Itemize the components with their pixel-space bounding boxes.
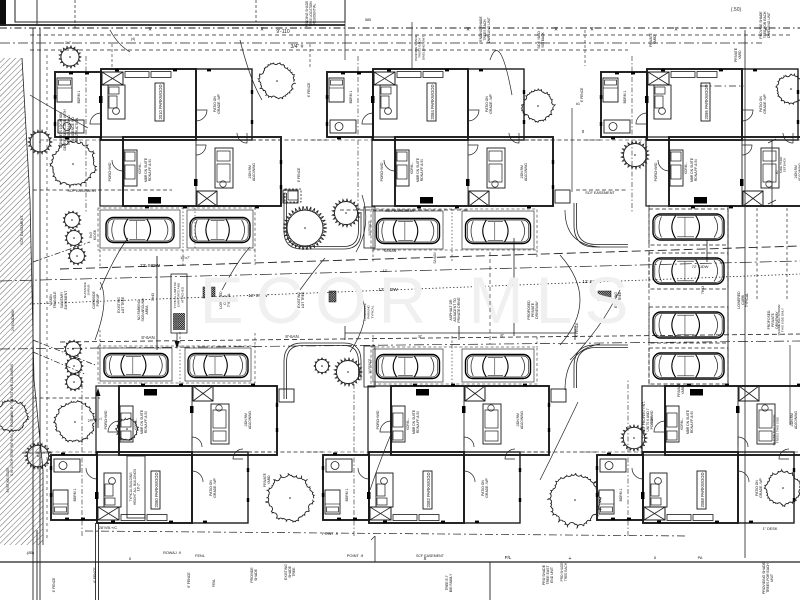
svg-text:EASEMENT: EASEMENT <box>64 291 68 310</box>
road leader 3 <box>300 258 325 290</box>
porch strip U6 <box>642 386 665 455</box>
door arc patio2 U6 <box>779 449 789 459</box>
kdrm text U5 <box>406 418 410 430</box>
svg-text:3/4" #: 3/4" # <box>291 44 304 50</box>
top dashed vline 112 <box>111 44 113 70</box>
parking stall D2 <box>185 348 251 381</box>
s-curve leader B1 <box>356 195 366 252</box>
east stall outline 2 <box>649 253 728 289</box>
svg-text:LOT TREE: LOT TREE <box>121 296 125 313</box>
car D1 <box>104 354 168 378</box>
top fuzz 412 <box>414 35 425 61</box>
east road line <box>744 30 746 558</box>
bed symbol U3 <box>603 78 618 102</box>
crosshatch blob mid <box>329 291 336 302</box>
mid text fence5 <box>52 577 56 592</box>
suite text U4 <box>140 409 148 434</box>
porch strip U5 <box>368 386 391 455</box>
vision diag 1 <box>33 340 95 365</box>
bdrm text U3 <box>623 90 627 103</box>
east column divider <box>649 205 728 385</box>
kitchen fixtures U6 <box>666 404 775 444</box>
svg-text:W FENCE: W FENCE <box>368 221 372 236</box>
closet shelf U5 <box>393 515 439 521</box>
west text 24rd <box>11 308 15 331</box>
south vline x37 <box>36 530 38 600</box>
fence dash C corner <box>700 85 744 87</box>
dim vline x514 <box>513 238 515 336</box>
vision triangle text <box>49 291 68 310</box>
closet shelf U1 <box>125 72 171 78</box>
closet shelf U3 <box>671 72 717 78</box>
s-curve leader B2 <box>350 300 365 352</box>
road text proposed driveway <box>527 300 539 320</box>
lower room text U6 <box>790 411 798 429</box>
svg-text:KDRM...: KDRM... <box>680 418 684 430</box>
svg-text:BDRM 1: BDRM 1 <box>73 488 77 501</box>
easement dash D2 <box>22 452 52 454</box>
tree spiky 1 <box>59 46 81 68</box>
door arc lower2 U6 <box>738 437 748 447</box>
car B2 <box>466 219 531 244</box>
svg-text:SCF EASEMENT: SCF EASEMENT <box>20 215 24 245</box>
wc fixtures U1 <box>58 120 84 133</box>
bdrm text U1 <box>77 90 81 103</box>
svg-text:DWELLING UNIT: DWELLING UNIT <box>421 36 425 60</box>
closet shelf U6 <box>667 515 713 521</box>
scf easement text west <box>10 215 24 477</box>
south text col5 <box>762 561 774 593</box>
svg-text:AREA: AREA <box>145 305 149 315</box>
guide dashed v U5 <box>353 380 355 536</box>
dim 16x7 <box>180 256 190 260</box>
setback dashed line A <box>30 34 792 36</box>
svg-text:ROWAJ .9: ROWAJ .9 <box>163 551 181 555</box>
road centerline <box>0 261 800 281</box>
stall stub D <box>100 330 255 346</box>
svg-text:YARD: YARD <box>681 385 685 395</box>
sidw label 72 <box>140 263 161 269</box>
curb C entry <box>574 203 628 247</box>
guide dashed h U6 <box>582 451 643 453</box>
svg-text:SCF EASEMENT: SCF EASEMENT <box>585 191 615 195</box>
patio room U4 <box>192 452 248 523</box>
wall ticks U4 <box>95 406 194 499</box>
top dashed vline <box>74 0 76 28</box>
east car 2 <box>653 258 724 284</box>
wall ticks U3 <box>645 96 744 186</box>
svg-text:THIS SIDE ONLY: THIS SIDE ONLY <box>781 308 785 332</box>
fence note box B <box>364 207 375 248</box>
svg-text:BDRM 1: BDRM 1 <box>349 90 353 103</box>
fence line SW corner <box>96 523 99 600</box>
tree spiky 2 <box>621 141 649 169</box>
svg-text:OBSTRUCTION: OBSTRUCTION <box>75 117 79 142</box>
lower room text U2 <box>520 163 528 181</box>
door arc patio2 U1 <box>237 133 247 143</box>
svg-text:PICKUP: PICKUP <box>96 293 100 306</box>
bath block U4 <box>104 473 121 507</box>
lower main U3 <box>669 137 800 206</box>
bottom fuzz 700 <box>698 556 703 560</box>
guide dashed h U4 <box>36 451 97 453</box>
door arc patio U3 <box>742 110 753 121</box>
wc fixtures U2 <box>330 120 356 133</box>
kdrm text U2 <box>410 162 414 174</box>
guide dashed v U6 <box>627 380 629 536</box>
window ticks U6 <box>596 384 800 523</box>
east car 3 <box>653 312 724 338</box>
car B1 <box>377 219 440 244</box>
lower room text U4 <box>244 411 252 429</box>
wall ticks U1 <box>99 96 198 186</box>
svg-text:EXISTING EDGE: EXISTING EDGE <box>6 468 10 493</box>
svg-text:+: + <box>569 556 572 562</box>
door arc lower2 U1 <box>196 145 206 155</box>
patio text U4 <box>209 478 217 498</box>
unit label box U6 <box>697 471 706 509</box>
door arc patio2 U5 <box>505 449 515 459</box>
east stall outline 3 <box>649 307 728 343</box>
patio room U5 <box>464 452 520 523</box>
equip box U1 <box>283 190 298 203</box>
bdrm text U6 <box>619 488 623 501</box>
bath block U1 <box>108 85 125 119</box>
carport limit note box <box>171 274 187 349</box>
svg-text:FENL: FENL <box>195 554 205 558</box>
svg-text:BDRM 1: BDRM 1 <box>77 90 81 103</box>
titlebox text right <box>305 1 317 28</box>
east vline 790 <box>789 345 791 425</box>
carport group outline B <box>371 209 537 250</box>
wc fixtures U3 <box>604 120 630 133</box>
black header U3 <box>694 197 707 204</box>
svg-text:SETBACK: SETBACK <box>783 157 787 172</box>
svg-text:P/L: P/L <box>505 555 512 560</box>
cluster link dash top2 <box>525 139 601 141</box>
lower xbox U6 <box>739 386 759 401</box>
patio text U1 <box>213 94 221 114</box>
tree leafy 5 <box>54 400 97 442</box>
bdrm text U5 <box>345 488 349 501</box>
main block U6 <box>643 452 738 523</box>
bath block U5 <box>376 473 393 507</box>
lower divider U1 <box>195 137 197 206</box>
car E2 <box>466 355 531 379</box>
door arc main U2 <box>362 113 373 124</box>
svg-text:RDNA FF-8.50: RDNA FF-8.50 <box>420 159 424 181</box>
yard dim line BC <box>572 102 585 192</box>
wall ticks U2 <box>371 96 470 186</box>
wc fixtures U5 <box>326 459 352 472</box>
leader top left <box>110 30 130 52</box>
svg-text:9'-110: 9'-110 <box>276 29 290 35</box>
bedroom wing U3 <box>601 72 647 137</box>
left arrow north <box>95 282 104 340</box>
svg-text:RDNA FF-8.50: RDNA FF-8.50 <box>694 159 698 181</box>
svg-text:7H63: 7H63 <box>701 286 705 295</box>
mid text fence4 <box>575 322 579 337</box>
porch strip U4 <box>96 386 119 455</box>
east note 3145 <box>642 401 654 438</box>
svg-text:28'/VB.+/C: 28'/VB.+/C <box>99 526 117 530</box>
window ticks U5 <box>322 384 550 523</box>
svg-text:6' FENCE: 6' FENCE <box>580 87 584 102</box>
door arc main U6 <box>632 468 643 479</box>
guide dashed h U1 <box>40 139 101 141</box>
easement dash D <box>33 397 100 399</box>
dim line mid <box>345 326 575 340</box>
guide dashed v U2 <box>357 56 359 212</box>
svg-text:6' FENCE: 6' FENCE <box>575 322 579 337</box>
mid fuzz 435 <box>384 249 437 264</box>
svg-text:POINT .9: POINT .9 <box>347 553 364 558</box>
svg-text:GRADE .WP: GRADE .WP <box>213 478 217 498</box>
svg-text:x: x <box>675 27 678 33</box>
unit divider dashed U1 <box>101 139 252 141</box>
porch strip U2 <box>372 137 395 206</box>
door arc main U4 <box>86 468 97 479</box>
door arc lower2 U4 <box>192 437 202 447</box>
car E1 <box>377 355 440 379</box>
stall stub B1 <box>373 250 537 262</box>
carport group outline E <box>371 347 537 384</box>
svg-text:ADJOINING: ADJOINING <box>248 411 252 429</box>
svg-text:GRADE .WP: GRADE .WP <box>759 478 763 498</box>
fence double line west <box>33 28 40 600</box>
svg-text:SHADE: SHADE <box>254 568 258 580</box>
svg-text:GRADE .WP: GRADE .WP <box>485 478 489 498</box>
wc fixtures U4 <box>54 459 80 472</box>
dim label 8-6an2 <box>285 334 298 339</box>
svg-text:YARD: YARD <box>653 35 657 45</box>
svg-text:GRADE .WP: GRADE .WP <box>217 94 221 114</box>
suite text U6 <box>686 409 694 434</box>
black header U1 <box>148 197 161 204</box>
lower main U5 <box>391 386 549 455</box>
tree leafy 4 <box>50 140 97 187</box>
svg-text:2010 PARKWOOD: 2010 PARKWOOD <box>158 84 163 119</box>
suite text U2 <box>416 157 424 182</box>
top leader 1 <box>490 51 512 95</box>
svg-text:24' ROADWAY: 24' ROADWAY <box>11 308 15 331</box>
dim vline x157 <box>151 256 157 350</box>
door arc lower U6 <box>654 421 665 432</box>
main block U3 <box>647 69 742 140</box>
parking stall E1 <box>373 349 443 382</box>
svg-text:TREES THIS SIDE: TREES THIS SIDE <box>776 417 780 443</box>
hatched verge strip <box>0 58 43 545</box>
scf easement label A <box>67 189 97 193</box>
south text col2 <box>284 564 296 580</box>
east stall dashed v2 <box>786 208 788 300</box>
tree spiky 14 <box>314 358 330 374</box>
svg-text:x: x <box>149 27 152 33</box>
tree spiky 5 <box>63 211 81 229</box>
top fuzz 130 <box>65 37 135 45</box>
west small text block <box>59 109 79 151</box>
guide dashed h2 U6 <box>794 451 800 453</box>
tree spiky 4 <box>283 206 327 250</box>
south text 6fence <box>93 567 191 588</box>
east text 1 <box>779 156 787 173</box>
setback dashed line C <box>30 49 628 51</box>
svg-text:KDRM...: KDRM... <box>410 162 414 174</box>
fence note box E <box>364 346 375 387</box>
closet xbox U5 <box>370 507 391 520</box>
parking stall D1 <box>100 348 172 381</box>
svg-text:SHRUB: SHRUB <box>87 285 91 296</box>
equip box U5 <box>551 389 566 402</box>
closet xbox U1 <box>102 72 123 85</box>
lower xbox U4 <box>193 386 213 401</box>
north property line <box>0 27 800 33</box>
border tick top-left <box>0 0 6 26</box>
dim label 3/4 <box>291 44 304 50</box>
tree spiky 11 <box>65 357 83 375</box>
south text col1 <box>250 567 258 583</box>
svg-text:BIG FAMILY: BIG FAMILY <box>449 573 453 592</box>
bedroom wing U4 <box>51 455 97 520</box>
svg-text:6' FENCE: 6' FENCE <box>187 572 191 588</box>
svg-text:2088 PARKWOOD: 2088 PARKWOOD <box>700 472 705 507</box>
scf easement label D <box>416 554 445 558</box>
mid text fence3 <box>297 167 301 182</box>
car A1 <box>106 218 174 243</box>
east note mid <box>767 310 779 329</box>
svg-text:2084 PARKWOOD: 2084 PARKWOOD <box>430 84 435 119</box>
kitchen fixtures U3 <box>670 148 779 188</box>
patio text U6 <box>755 478 763 498</box>
carport group outline A <box>98 208 255 250</box>
west dashed utility line <box>46 55 48 540</box>
parking stall A2 <box>187 210 253 248</box>
dim text 24vb <box>87 417 102 423</box>
tree spiky 12 <box>65 373 83 391</box>
equip box U2 <box>555 190 570 203</box>
lower room text U3 <box>794 163 800 181</box>
svg-text:GRADE .WP: GRADE .WP <box>489 94 493 114</box>
svg-text:ADJOINING: ADJOINING <box>524 163 528 181</box>
bottom fuzz 215 <box>212 579 216 588</box>
rowaj label <box>163 551 181 555</box>
road text asphalt <box>449 297 461 323</box>
bath block U6 <box>650 473 667 507</box>
guide dashed h2 U1 <box>252 139 285 141</box>
equip box U4 <box>279 389 294 402</box>
svg-text:DWELLING UNIT: DWELLING UNIT <box>767 12 771 38</box>
tree spiky 15 <box>621 425 647 451</box>
unit divider dashed U3 <box>647 139 798 141</box>
vision diag 3 <box>33 242 90 262</box>
road text east1 <box>614 291 622 308</box>
door arc lower U2 <box>384 160 395 171</box>
svg-text:x: x <box>591 27 594 33</box>
black header U4 <box>144 389 157 396</box>
main block U2 <box>373 69 468 140</box>
no parking text <box>137 298 149 322</box>
svg-text:SGF EASEMENT: SGF EASEMENT <box>385 209 415 213</box>
door arc main U1 <box>90 113 101 124</box>
west text low <box>6 468 10 493</box>
svg-text:UNIT: UNIT <box>770 574 774 582</box>
south line ticks <box>129 555 657 561</box>
kdrm text U6 <box>680 418 684 430</box>
road leader 4 <box>560 255 580 345</box>
east label 72sidw <box>692 264 709 269</box>
bedroom wing U1 <box>55 72 101 137</box>
closet xbox U6 <box>644 507 665 520</box>
svg-text:2086 PARKWOOD: 2086 PARKWOOD <box>704 84 709 119</box>
south vline x490 <box>489 562 491 600</box>
window ticks U1 <box>54 69 282 209</box>
leader top mid <box>240 40 262 100</box>
svg-text:(4): (4) <box>131 37 135 41</box>
top text pending <box>479 16 491 44</box>
stall stub A1 <box>100 250 255 267</box>
bed symbol U4 <box>53 490 68 514</box>
svg-text:PORCH/WD: PORCH/WD <box>104 410 108 429</box>
svg-text:RDNA FF-8.50: RDNA FF-8.50 <box>690 411 694 433</box>
svg-text:TREE: TREE <box>292 567 296 577</box>
tree spiky 10 <box>64 340 82 358</box>
unit label box U5 <box>423 471 432 509</box>
lower divider U2 <box>467 137 469 206</box>
svg-text:END UNIT: END UNIT <box>550 567 554 583</box>
door arc patio U6 <box>738 471 749 482</box>
svg-text:PORCH/WD: PORCH/WD <box>654 162 658 181</box>
svg-text:ADJOINING: ADJOINING <box>520 411 524 429</box>
tree spiky 7 <box>68 247 86 265</box>
cluster link dash bot1 <box>248 451 323 453</box>
kdrm text U1 <box>138 162 142 174</box>
road text sloped <box>297 291 305 308</box>
svg-text:YARD: YARD <box>738 50 742 60</box>
svg-text:KDRM...: KDRM... <box>684 162 688 174</box>
door arc lower U4 <box>108 421 119 432</box>
curb B left <box>284 193 361 249</box>
lower main U1 <box>123 137 281 206</box>
west leader arc <box>30 95 88 128</box>
south dash line <box>85 526 688 536</box>
scf easement label C <box>576 190 628 195</box>
svg-text:ADJOINING: ADJOINING <box>252 163 256 181</box>
lower main U4 <box>119 386 277 455</box>
door arc lower U1 <box>112 160 123 171</box>
svg-text:x: x <box>654 555 657 560</box>
parking stall E2 <box>462 349 534 382</box>
lower room text U1 <box>248 163 256 181</box>
tree leafy 7 <box>266 473 315 522</box>
dim label 8a <box>418 333 503 339</box>
svg-text:3/4": 3/4" <box>65 41 72 45</box>
svg-text:TREE EACH: TREE EACH <box>564 562 568 581</box>
road text curbside <box>92 291 100 309</box>
svg-text:(.50): (.50) <box>731 7 742 13</box>
north arrow D <box>96 388 101 428</box>
mid text typical <box>89 229 97 240</box>
sidewalk dotted line <box>30 274 800 304</box>
guide dashed v U3 <box>631 56 633 212</box>
black header U2 <box>420 197 433 204</box>
road text lowered curb 2 <box>219 291 231 309</box>
road dashdot lower <box>0 341 800 349</box>
bed symbol U2 <box>329 78 344 102</box>
svg-text:POINT .9: POINT .9 <box>322 532 338 536</box>
svg-text:GRADE .WP: GRADE .WP <box>763 94 767 114</box>
dim label 8-6an1 <box>141 335 154 340</box>
stall stub E <box>373 335 537 347</box>
